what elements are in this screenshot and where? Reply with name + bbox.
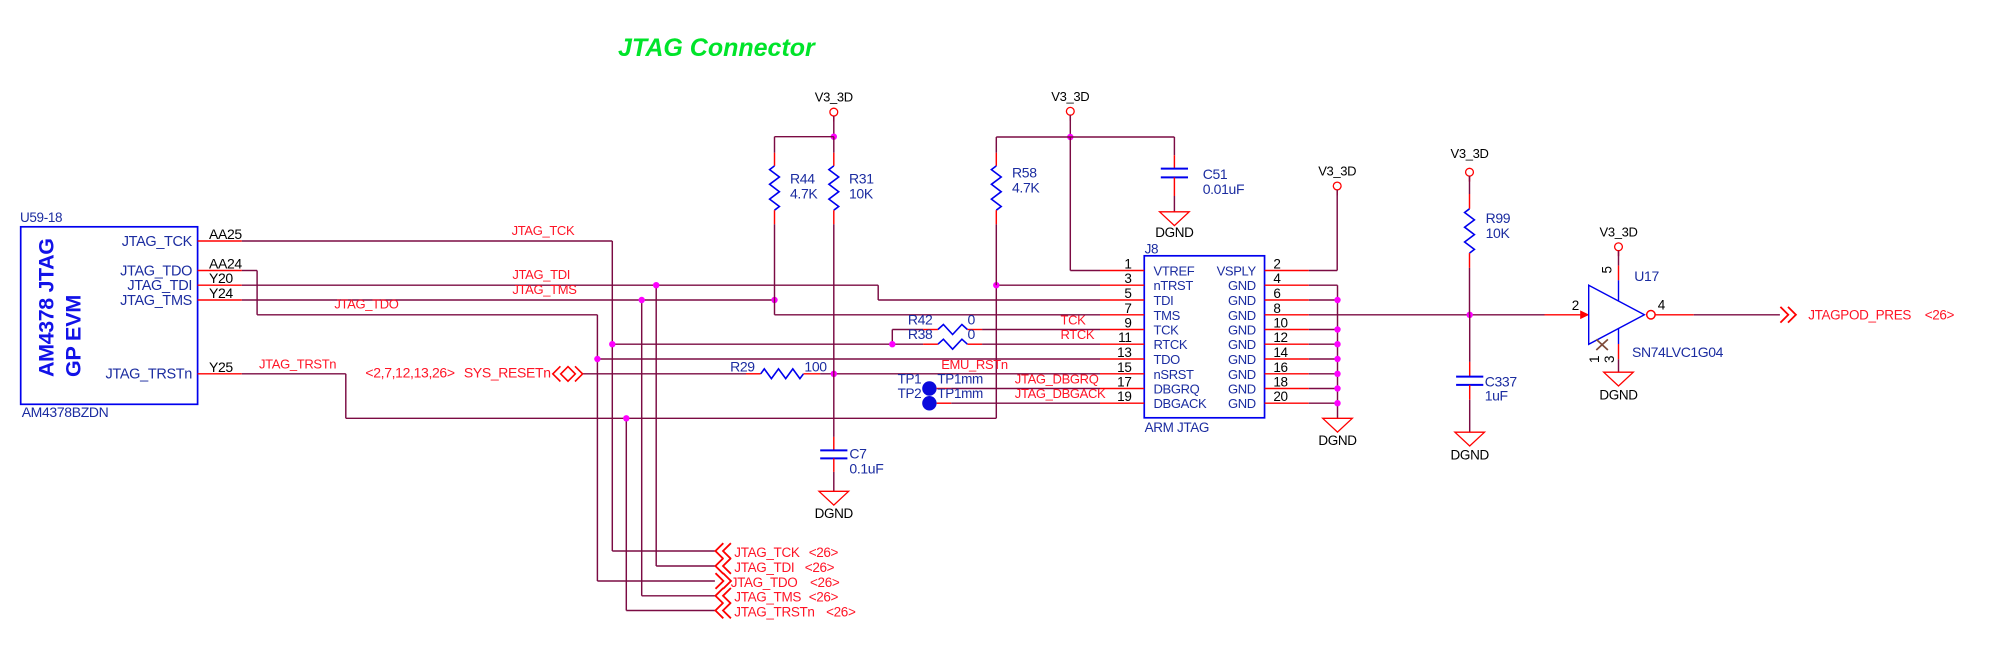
svg-text:V3_3D: V3_3D <box>1451 146 1489 161</box>
svg-text:RTCK: RTCK <box>1154 337 1188 352</box>
svg-text:10: 10 <box>1273 316 1287 331</box>
svg-text:JTAG_TMS: JTAG_TMS <box>120 293 192 309</box>
svg-text:DGND: DGND <box>1599 388 1638 403</box>
svg-text:16: 16 <box>1273 360 1287 375</box>
svg-text:SYS_RESETn: SYS_RESETn <box>464 365 551 381</box>
svg-text:5: 5 <box>1600 266 1615 274</box>
svg-text:18: 18 <box>1273 375 1287 390</box>
svg-text:V3_3D: V3_3D <box>1318 164 1356 179</box>
svg-text:DGND: DGND <box>1451 447 1490 462</box>
svg-text:R42: R42 <box>908 312 933 328</box>
svg-text:<26>: <26> <box>1925 308 1955 323</box>
svg-text:JTAG Connector: JTAG Connector <box>618 34 816 62</box>
svg-text:GP EVM: GP EVM <box>62 295 86 377</box>
svg-text:DGND: DGND <box>1318 433 1357 448</box>
svg-text:4.7K: 4.7K <box>1012 180 1040 196</box>
svg-text:14: 14 <box>1273 345 1288 360</box>
svg-text:100: 100 <box>804 359 827 375</box>
svg-text:5: 5 <box>1124 286 1131 301</box>
svg-text:JTAG_TDI: JTAG_TDI <box>127 278 192 294</box>
svg-text:0: 0 <box>968 312 976 328</box>
svg-text:GND: GND <box>1228 367 1256 382</box>
svg-text:J8: J8 <box>1145 242 1159 257</box>
svg-text:V3_3D: V3_3D <box>1600 224 1638 239</box>
svg-text:1: 1 <box>1587 355 1602 363</box>
svg-text:1: 1 <box>1124 257 1131 272</box>
svg-text:<2,7,12,13,26>: <2,7,12,13,26> <box>365 365 454 381</box>
svg-text:JTAG_TRSTn: JTAG_TRSTn <box>734 604 814 619</box>
svg-text:13: 13 <box>1117 345 1131 360</box>
svg-text:JTAG_TCK: JTAG_TCK <box>512 223 575 238</box>
svg-text:JTAG_TCK: JTAG_TCK <box>734 545 800 560</box>
svg-text:TP1mm: TP1mm <box>937 372 983 387</box>
svg-text:JTAG_DBGACK: JTAG_DBGACK <box>1015 386 1106 401</box>
svg-text:U17: U17 <box>1634 268 1659 284</box>
svg-text:Y20: Y20 <box>209 270 233 286</box>
svg-text:TCK: TCK <box>1061 312 1087 327</box>
svg-text:nSRST: nSRST <box>1154 367 1195 382</box>
svg-text:TDO: TDO <box>1154 352 1181 367</box>
svg-text:VSPLY: VSPLY <box>1217 264 1257 279</box>
svg-text:GND: GND <box>1228 337 1256 352</box>
svg-text:V3_3D: V3_3D <box>1051 89 1089 104</box>
svg-text:4: 4 <box>1658 297 1666 312</box>
svg-text:<26>: <26> <box>805 560 835 575</box>
svg-text:C51: C51 <box>1203 166 1228 182</box>
svg-text:<26>: <26> <box>810 575 840 590</box>
svg-text:JTAG_TDO: JTAG_TDO <box>334 297 398 312</box>
svg-text:JTAGPOD_PRES: JTAGPOD_PRES <box>1808 308 1911 323</box>
svg-text:TMS: TMS <box>1154 308 1181 323</box>
svg-text:9: 9 <box>1124 316 1131 331</box>
svg-text:C7: C7 <box>849 445 867 461</box>
svg-text:AA25: AA25 <box>209 226 242 242</box>
svg-text:JTAG_TDO: JTAG_TDO <box>731 575 798 590</box>
svg-text:DGND: DGND <box>815 506 854 521</box>
svg-text:Y24: Y24 <box>209 285 233 301</box>
svg-text:3: 3 <box>1124 271 1131 286</box>
svg-text:JTAG_TDO: JTAG_TDO <box>120 263 192 279</box>
svg-text:R29: R29 <box>730 359 755 375</box>
svg-text:GND: GND <box>1228 396 1256 411</box>
svg-text:Y25: Y25 <box>209 359 233 375</box>
svg-text:R99: R99 <box>1486 210 1511 226</box>
svg-text:V3_3D: V3_3D <box>815 89 853 104</box>
svg-text:19: 19 <box>1117 389 1131 404</box>
svg-text:GND: GND <box>1228 278 1256 293</box>
svg-text:DGND: DGND <box>1155 225 1194 240</box>
svg-text:JTAG_TMS: JTAG_TMS <box>512 282 577 297</box>
svg-text:TP1mm: TP1mm <box>937 386 983 401</box>
svg-text:JTAG_TRSTn: JTAG_TRSTn <box>259 357 336 372</box>
svg-text:8: 8 <box>1273 301 1280 316</box>
svg-text:2: 2 <box>1572 298 1579 313</box>
svg-text:1uF: 1uF <box>1485 388 1508 404</box>
svg-text:3: 3 <box>1602 355 1617 363</box>
svg-text:U59-18: U59-18 <box>20 210 62 225</box>
svg-text:6: 6 <box>1273 286 1280 301</box>
svg-text:TDI: TDI <box>1154 293 1174 308</box>
svg-text:4.7K: 4.7K <box>790 186 818 202</box>
svg-text:15: 15 <box>1117 360 1131 375</box>
svg-text:11: 11 <box>1118 330 1131 345</box>
svg-text:2: 2 <box>1273 257 1280 272</box>
svg-text:ARM JTAG: ARM JTAG <box>1145 420 1209 435</box>
svg-text:10K: 10K <box>1486 225 1511 241</box>
svg-text:GND: GND <box>1228 352 1256 367</box>
svg-text:<26>: <26> <box>826 604 856 619</box>
svg-text:7: 7 <box>1124 301 1131 316</box>
svg-text:EMU_RSTn: EMU_RSTn <box>941 357 1008 372</box>
svg-text:R31: R31 <box>849 171 874 187</box>
svg-text:17: 17 <box>1117 375 1131 390</box>
svg-text:JTAG_TDI: JTAG_TDI <box>512 267 570 282</box>
svg-text:TP1: TP1 <box>898 372 922 387</box>
svg-text:<26>: <26> <box>809 545 839 560</box>
svg-text:RTCK: RTCK <box>1061 327 1095 342</box>
svg-text:GND: GND <box>1228 308 1256 323</box>
svg-text:12: 12 <box>1273 330 1287 345</box>
svg-text:AM4378BZDN: AM4378BZDN <box>22 404 109 420</box>
svg-text:JTAG_TMS: JTAG_TMS <box>734 590 801 605</box>
svg-text:10K: 10K <box>849 186 874 202</box>
svg-text:JTAG_TDI: JTAG_TDI <box>734 560 794 575</box>
svg-text:JTAG_TCK: JTAG_TCK <box>122 234 193 250</box>
svg-text:AA24: AA24 <box>209 256 242 272</box>
svg-text:0.01uF: 0.01uF <box>1203 181 1245 197</box>
svg-text:0.1uF: 0.1uF <box>849 461 883 477</box>
svg-text:DBGRQ: DBGRQ <box>1154 382 1200 397</box>
svg-text:VTREF: VTREF <box>1154 264 1195 279</box>
svg-text:R38: R38 <box>908 326 933 342</box>
svg-text:R44: R44 <box>790 171 815 187</box>
svg-text:AM4378 JTAG: AM4378 JTAG <box>35 238 59 377</box>
svg-text:R58: R58 <box>1012 165 1037 181</box>
svg-text:20: 20 <box>1273 389 1287 404</box>
svg-text:SN74LVC1G04: SN74LVC1G04 <box>1632 344 1724 360</box>
svg-text:<26>: <26> <box>809 590 839 605</box>
svg-text:TCK: TCK <box>1154 323 1180 338</box>
svg-text:4: 4 <box>1273 271 1281 286</box>
svg-text:JTAG_TRSTn: JTAG_TRSTn <box>106 367 193 383</box>
svg-text:JTAG_DBGRQ: JTAG_DBGRQ <box>1015 371 1099 386</box>
svg-text:nTRST: nTRST <box>1154 278 1194 293</box>
svg-text:GND: GND <box>1228 323 1256 338</box>
svg-text:GND: GND <box>1228 382 1256 397</box>
svg-text:DBGACK: DBGACK <box>1154 396 1207 411</box>
svg-text:0: 0 <box>968 326 976 342</box>
svg-text:GND: GND <box>1228 293 1256 308</box>
svg-text:TP2: TP2 <box>898 386 922 401</box>
